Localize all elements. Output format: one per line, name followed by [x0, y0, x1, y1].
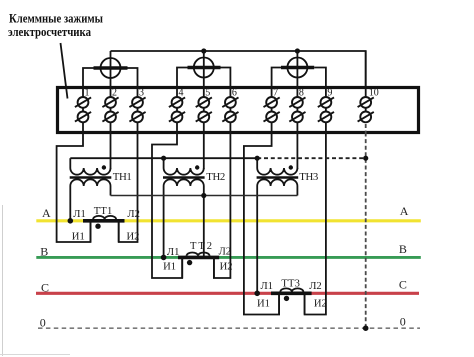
svg-text:3: 3: [139, 88, 144, 99]
svg-text:А: А: [400, 204, 409, 218]
svg-text:ТТ1: ТТ1: [94, 206, 113, 217]
svg-text:8: 8: [299, 88, 304, 99]
svg-text:0: 0: [400, 314, 406, 328]
svg-text:4: 4: [179, 88, 184, 99]
svg-text:Л2: Л2: [219, 247, 231, 258]
svg-text:Л1: Л1: [167, 247, 179, 258]
svg-text:Л2: Л2: [309, 281, 321, 292]
svg-text:1: 1: [85, 88, 90, 99]
svg-text:ТТ3: ТТ3: [281, 279, 300, 290]
svg-text:В: В: [40, 245, 48, 259]
svg-text:Л1: Л1: [73, 209, 85, 220]
svg-text:10: 10: [369, 88, 379, 99]
svg-text:И2: И2: [314, 298, 327, 309]
svg-text:И1: И1: [163, 262, 176, 273]
svg-text:И2: И2: [127, 231, 140, 242]
svg-text:2: 2: [112, 88, 117, 99]
svg-text:ТН2: ТН2: [206, 171, 225, 183]
svg-text:Л2: Л2: [127, 209, 139, 220]
svg-text:ТТ2: ТТ2: [190, 241, 212, 252]
svg-text:И2: И2: [220, 262, 233, 273]
svg-text:Л1: Л1: [261, 281, 273, 292]
svg-text:7: 7: [273, 88, 278, 99]
svg-text:6: 6: [232, 88, 237, 99]
svg-text:С: С: [41, 280, 49, 294]
svg-text:ТН3: ТН3: [299, 171, 318, 183]
svg-text:А: А: [42, 206, 51, 220]
svg-text:электросчетчика: электросчетчика: [8, 24, 91, 39]
svg-text:9: 9: [327, 88, 332, 99]
svg-text:ТН1: ТН1: [113, 171, 132, 183]
svg-text:С: С: [399, 278, 407, 292]
svg-text:0: 0: [40, 316, 46, 330]
svg-text:И1: И1: [72, 231, 85, 242]
svg-text:5: 5: [205, 88, 210, 99]
svg-text:В: В: [399, 242, 407, 256]
svg-text:И1: И1: [257, 298, 270, 309]
